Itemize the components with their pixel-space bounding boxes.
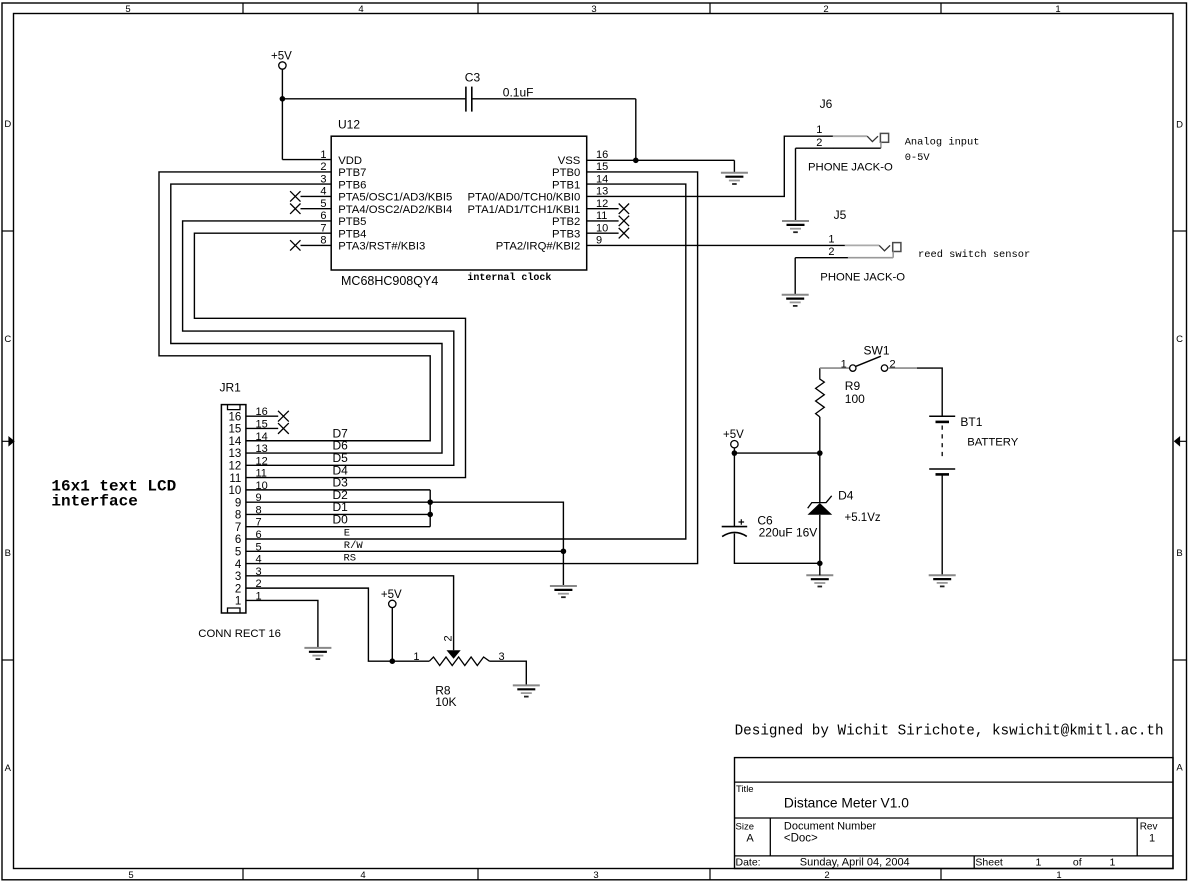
U12 left pin names: [338, 155, 452, 253]
ground (J5): [782, 295, 809, 306]
svg-text:Designed by Wichit Sirichote,: Designed by Wichit Sirichote, kswichit@k…: [735, 724, 1164, 740]
svg-text:D0: D0: [333, 512, 349, 526]
wire JR1 pin15 no-connect stub: [246, 427, 278, 429]
svg-text:PTB3: PTB3: [552, 229, 580, 241]
+5V power symbol (VDD): [271, 51, 292, 70]
svg-text:U12: U12: [338, 118, 360, 132]
svg-text:2: 2: [443, 635, 455, 641]
svg-text:PTA2/IRQ#/KBI2: PTA2/IRQ#/KBI2: [496, 241, 581, 253]
svg-text:C3: C3: [465, 71, 481, 85]
wire +5V to C6 node: [733, 448, 735, 454]
wire PTB0 pin15 to LCD RS: [246, 172, 698, 564]
wire U12 pin11 no-connect stub: [587, 220, 619, 222]
svg-text:D: D: [4, 119, 11, 130]
svg-text:3: 3: [591, 4, 596, 15]
svg-text:1: 1: [1055, 4, 1060, 15]
wire C6 top lead: [733, 453, 735, 526]
wire U12 pin12 no-connect stub: [587, 208, 619, 210]
svg-text:PTB7: PTB7: [338, 167, 366, 179]
wire U12 pin4 no-connect stub: [301, 195, 332, 197]
svg-text:10K: 10K: [435, 695, 456, 709]
wire JR1 pin9 D2 row: [246, 501, 430, 503]
svg-text:Sunday, April 04, 2004: Sunday, April 04, 2004: [800, 857, 910, 869]
wire C3 to VSS vertical: [635, 99, 637, 161]
svg-text:1: 1: [1109, 857, 1115, 869]
svg-text:VSS: VSS: [558, 155, 581, 167]
connector J6 phone jack symbol: [833, 133, 889, 148]
no-connect X pin8: [290, 240, 300, 250]
svg-text:0.1uF: 0.1uF: [503, 85, 534, 99]
svg-text:3: 3: [235, 571, 241, 583]
junction D2: [427, 499, 433, 505]
svg-text:D: D: [1176, 120, 1183, 131]
wire C6 bottom lead to rail: [734, 534, 819, 564]
svg-text:PTA4/OSC2/AD2/KBI4: PTA4/OSC2/AD2/KBI4: [338, 204, 452, 216]
ground (BT1): [929, 575, 956, 586]
svg-text:2: 2: [890, 358, 896, 370]
JR1 outside pin numbers 16-1: [256, 406, 268, 602]
wire +5V rail vertical to VDD: [281, 69, 283, 160]
svg-text:1: 1: [816, 124, 822, 136]
svg-text:8: 8: [235, 510, 241, 522]
no-connect X pin5: [290, 204, 300, 214]
svg-text:A: A: [1176, 763, 1183, 774]
wire JR1 pin8 D1 row: [246, 513, 430, 515]
wire PTB1 pin14 to LCD E: [246, 184, 686, 539]
svg-text:PTA0/AD0/TCH0/KBI0: PTA0/AD0/TCH0/KBI0: [467, 192, 580, 204]
svg-text:+5.1Vz: +5.1Vz: [845, 512, 881, 524]
wire J6 sleeve to ground: [796, 148, 834, 221]
svg-text:0-5V: 0-5V: [905, 152, 931, 164]
svg-text:5: 5: [235, 546, 241, 558]
wire C3 left lead: [282, 98, 466, 100]
svg-text:BT1: BT1: [960, 415, 982, 429]
svg-text:Distance Meter V1.0: Distance Meter V1.0: [784, 796, 909, 811]
switch SW1: [820, 356, 917, 371]
title block: [735, 758, 1174, 869]
svg-text:16: 16: [596, 149, 608, 161]
wire SW1 to battery: [917, 368, 942, 416]
U12 left pin numbers 1-8: [320, 149, 326, 247]
wire +5V rail to R9/D4: [734, 452, 819, 454]
svg-text:B: B: [1176, 548, 1182, 559]
svg-text:SW1: SW1: [864, 343, 890, 357]
svg-text:+5V: +5V: [271, 51, 292, 63]
svg-text:JR1: JR1: [220, 381, 242, 395]
ground (J6): [782, 221, 809, 232]
svg-text:PTA3/RST#/KBI3: PTA3/RST#/KBI3: [338, 241, 425, 253]
svg-text:5: 5: [125, 4, 130, 15]
16x1 text LCD interface annotation: [51, 478, 176, 511]
svg-text:<Doc>: <Doc>: [784, 832, 818, 844]
svg-text:2: 2: [816, 137, 822, 149]
svg-text:J6: J6: [820, 97, 833, 111]
svg-text:14: 14: [256, 431, 268, 443]
wire U12 pin1 VDD stub: [282, 159, 331, 161]
svg-text:2: 2: [824, 870, 829, 881]
svg-text:R/W: R/W: [344, 540, 364, 552]
svg-text:4: 4: [358, 4, 363, 15]
svg-text:Title: Title: [736, 784, 754, 795]
no-connect X pin4: [290, 191, 300, 201]
svg-text:1: 1: [828, 233, 834, 245]
resistor R9 100: [816, 368, 825, 417]
svg-text:Rev: Rev: [1140, 822, 1158, 833]
wire U12 pin8 no-connect stub: [301, 244, 332, 246]
wire U12 pin5 no-connect stub: [301, 208, 332, 210]
wire JR1 pin1 to ground: [246, 600, 318, 647]
wire U12 pin16 VSS to ground: [587, 160, 735, 172]
svg-text:J5: J5: [834, 208, 847, 222]
wire JR1 pin3 to R8 wiper: [246, 576, 454, 650]
svg-text:A: A: [746, 833, 754, 845]
svg-text:+5V: +5V: [723, 429, 744, 441]
svg-text:7: 7: [235, 522, 241, 534]
wire D2 branch to ground vertical: [430, 502, 563, 586]
wire PTB4 to D4: [194, 233, 465, 477]
no-connect X pin10: [619, 228, 629, 238]
svg-text:internal clock: internal clock: [467, 272, 551, 284]
svg-text:C: C: [4, 334, 11, 345]
svg-text:D4: D4: [838, 489, 854, 503]
svg-text:11: 11: [256, 468, 267, 480]
wire U12 pin10 no-connect stub: [587, 232, 619, 234]
connector JR1 body: [221, 405, 246, 613]
svg-text:100: 100: [845, 392, 865, 406]
junction C3/VSS: [633, 158, 639, 164]
+5V power symbol (power rail): [723, 429, 744, 448]
svg-text:220uF 16V: 220uF 16V: [759, 526, 818, 540]
svg-text:1: 1: [1149, 833, 1155, 845]
svg-text:6: 6: [256, 529, 262, 541]
wire PTB6 to D6: [171, 184, 442, 453]
no-connect X JR1 pin15: [278, 423, 289, 434]
junction D1: [427, 512, 433, 518]
junction +5V/C3: [280, 96, 286, 102]
svg-text:14: 14: [229, 436, 242, 448]
svg-text:4: 4: [360, 870, 365, 881]
svg-text:PTB0: PTB0: [552, 167, 580, 179]
svg-text:4: 4: [256, 554, 262, 566]
svg-text:15: 15: [229, 424, 242, 436]
svg-text:2: 2: [828, 246, 834, 258]
junction +5V/C6: [732, 450, 738, 456]
resistor R8 potentiometer 10K: [429, 650, 489, 665]
svg-text:16: 16: [229, 411, 242, 423]
wire J5 sleeve to ground: [795, 258, 848, 295]
svg-text:of: of: [1073, 857, 1082, 869]
svg-text:+5V: +5V: [381, 589, 402, 601]
svg-text:PHONE JACK-O: PHONE JACK-O: [808, 162, 893, 174]
svg-text:10: 10: [229, 485, 242, 497]
svg-text:Document Number: Document Number: [784, 821, 877, 833]
svg-text:12: 12: [229, 461, 242, 473]
svg-text:PTB2: PTB2: [552, 216, 580, 228]
svg-text:RS: RS: [344, 552, 357, 564]
junction bottom rail/ground: [817, 561, 823, 567]
wire C3 right lead: [472, 98, 636, 100]
wire ground stem (power rail): [819, 563, 821, 575]
wire JR1 pin5 R/W row: [246, 550, 564, 552]
svg-text:3: 3: [593, 870, 598, 881]
svg-text:12: 12: [256, 455, 268, 467]
+5V power symbol (R8): [381, 589, 402, 608]
svg-text:VDD: VDD: [338, 155, 362, 167]
wire PTA0 pin13 to J6 tip: [587, 136, 834, 196]
wire JR1 pin7 D0 row: [246, 526, 430, 528]
wire D3-D0 tie vertical: [429, 490, 431, 527]
svg-text:C: C: [1176, 334, 1183, 345]
svg-text:1: 1: [1056, 870, 1061, 881]
no-connect X pin12: [619, 204, 629, 214]
svg-text:reed switch sensor: reed switch sensor: [918, 249, 1030, 261]
svg-text:Size: Size: [736, 822, 754, 833]
ground (R8): [513, 685, 540, 696]
ground (LCD data/RW): [550, 586, 577, 597]
svg-text:PTB4: PTB4: [338, 229, 366, 241]
svg-text:BATTERY: BATTERY: [967, 437, 1019, 449]
wire PTB5 to D5: [183, 221, 454, 465]
svg-text:1: 1: [841, 358, 847, 370]
connector J5 phone jack symbol: [845, 243, 901, 258]
svg-text:R9: R9: [845, 379, 861, 393]
svg-text:interface: interface: [51, 492, 137, 510]
svg-text:2: 2: [235, 583, 241, 595]
svg-text:4: 4: [235, 559, 242, 571]
no-connect X pin11: [619, 216, 629, 226]
svg-text:PTA5/OSC1/AD3/KBI5: PTA5/OSC1/AD3/KBI5: [338, 192, 452, 204]
svg-text:5: 5: [128, 870, 133, 881]
ground (JR1 pin1): [304, 648, 331, 659]
svg-text:13: 13: [229, 448, 242, 460]
svg-text:6: 6: [235, 534, 241, 546]
ground (VSS): [721, 173, 748, 184]
wire R8 pin3 to ground: [490, 661, 527, 685]
svg-text:PTB5: PTB5: [338, 216, 366, 228]
svg-text:PHONE JACK-O: PHONE JACK-O: [820, 272, 905, 284]
junction R/W to ground vertical: [561, 548, 567, 554]
wire PTA2 pin9 to J5 tip: [587, 244, 845, 246]
svg-text:1: 1: [235, 596, 241, 608]
wire +5V drop to rail: [391, 607, 393, 661]
svg-text:E: E: [344, 528, 350, 540]
U12 right pin names: [467, 155, 580, 253]
diode D4 zener 5.1V: [808, 453, 833, 563]
wire R9 bottom to rail: [819, 417, 821, 453]
svg-text:PTB6: PTB6: [338, 179, 366, 191]
junction R9/D4 rail: [817, 450, 823, 456]
svg-text:Analog input: Analog input: [905, 137, 980, 149]
svg-text:PTA1/AD1/TCH1/KBI1: PTA1/AD1/TCH1/KBI1: [467, 204, 580, 216]
JR1 inside pin numbers 16-1: [229, 411, 242, 607]
wire JR1 pin2 to +5V rail: [246, 588, 429, 661]
U12 right pin numbers 16-9: [596, 149, 608, 247]
svg-text:B: B: [5, 548, 11, 559]
svg-text:CONN RECT 16: CONN RECT 16: [198, 628, 281, 640]
wire PTB7 to D7: [159, 172, 430, 441]
svg-text:PTB1: PTB1: [552, 179, 580, 191]
svg-text:1: 1: [413, 651, 419, 663]
svg-text:13: 13: [256, 443, 268, 455]
battery BT1: [929, 416, 955, 474]
svg-text:Sheet: Sheet: [975, 857, 1003, 869]
svg-text:2: 2: [823, 4, 828, 15]
junction +5V/R8 rail: [390, 658, 396, 664]
svg-text:A: A: [5, 763, 12, 774]
IC U12 MC68HC908QY4 microcontroller: [331, 118, 587, 289]
ground (power rail): [806, 575, 833, 586]
svg-text:11: 11: [229, 473, 241, 485]
wire JR1 pin10 D3 row: [246, 489, 430, 491]
wire BT1 negative to ground: [941, 474, 943, 575]
svg-text:9: 9: [235, 497, 241, 509]
capacitor C3 plates: [466, 87, 472, 112]
capacitor C6 220uF 16V polarized: [722, 519, 748, 536]
svg-text:Date:: Date:: [736, 857, 761, 869]
svg-text:1: 1: [1035, 857, 1041, 869]
svg-text:MC68HC908QY4: MC68HC908QY4: [341, 274, 438, 288]
wire JR1 pin16 no-connect stub: [246, 415, 278, 417]
no-connect X JR1 pin16: [278, 411, 289, 422]
